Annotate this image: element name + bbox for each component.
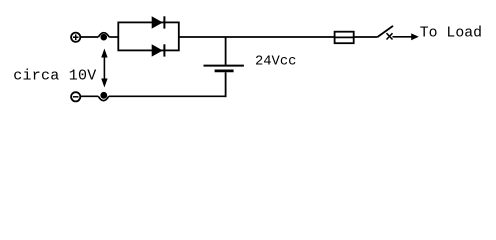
- diode D1 (top branch): [152, 16, 165, 28]
- battery short plate (-): [215, 70, 234, 73]
- switch SW1 blade (open): [378, 26, 394, 37]
- wire from node B to battery bottom: [109, 95, 227, 97]
- measurement double arrow (circa 10V): [101, 49, 107, 88]
- fuse F1: [335, 32, 354, 44]
- diode D2 (bottom branch): [152, 44, 165, 56]
- arrowhead to load: [411, 33, 419, 40]
- battery long plate (+): [204, 65, 244, 67]
- battery bottom lead: [225, 72, 227, 97]
- switch contact x mark: [387, 33, 393, 39]
- wire from diode bridge to fuse (passes battery tap): [179, 36, 336, 38]
- wire from node A to diode bridge: [109, 36, 118, 38]
- terminal - (negative input): [71, 92, 80, 101]
- battery top lead: [225, 37, 227, 65]
- wire hop arc at node A: [98, 33, 109, 37]
- wire from switch to load arrow: [393, 36, 413, 38]
- node B junction dot: [100, 92, 107, 99]
- svg-text:24Vcc: 24Vcc: [255, 54, 296, 69]
- wire from + terminal to node A: [81, 36, 99, 38]
- wire from fuse to switch: [354, 36, 378, 38]
- wire from - terminal to node B: [81, 95, 99, 97]
- svg-text:circa 10V: circa 10V: [13, 68, 96, 85]
- svg-text:To Load: To Load: [420, 26, 482, 42]
- terminal + (positive input): [71, 33, 80, 42]
- wire hop arc at node B: [98, 96, 108, 100]
- diode bridge box (two parallel diodes): [118, 22, 179, 50]
- node A junction dot: [100, 34, 107, 41]
